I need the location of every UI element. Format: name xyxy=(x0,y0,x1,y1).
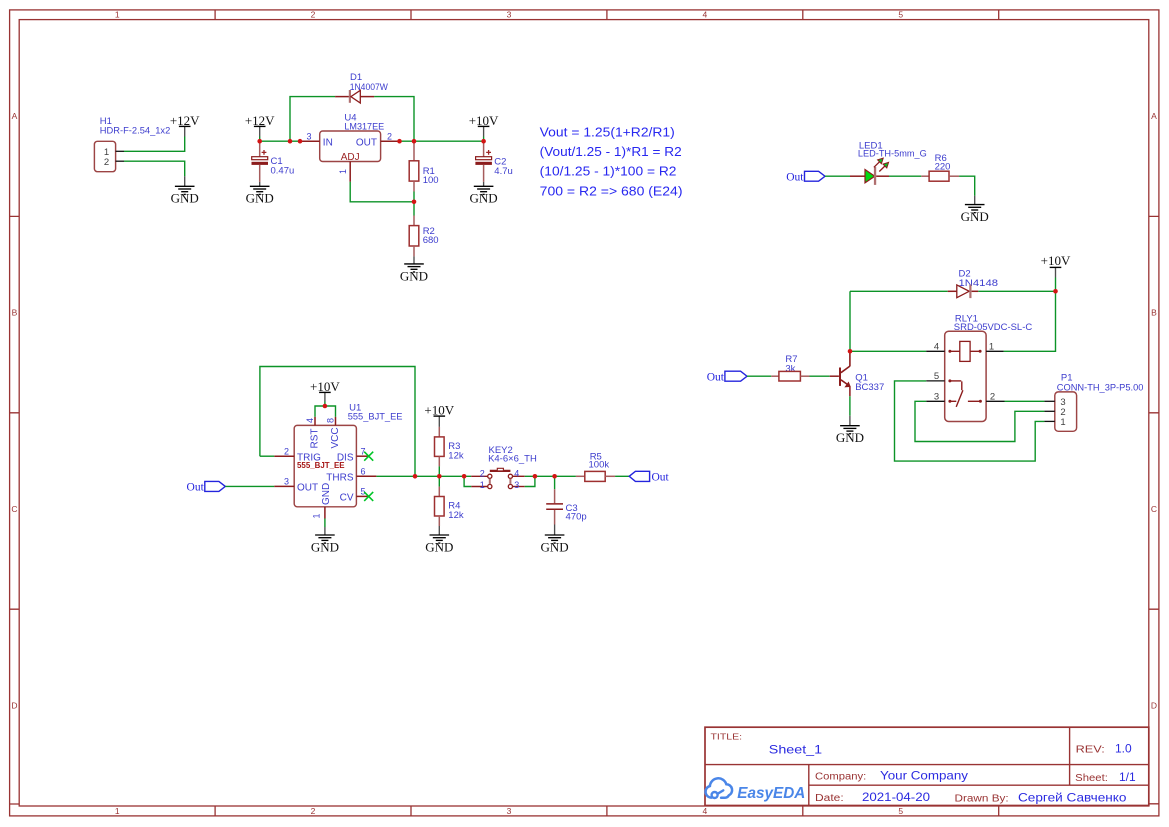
pin 3 xyxy=(926,400,945,402)
capacitor C3 470p xyxy=(546,476,586,524)
resistor R1 100 xyxy=(409,143,438,202)
timer U1 555_BJT_EE xyxy=(274,402,402,518)
wire OUT rail xyxy=(398,140,483,142)
svg-text:12k: 12k xyxy=(448,510,464,521)
resistor R2 680 xyxy=(409,202,438,257)
svg-text:+10V: +10V xyxy=(1041,253,1071,268)
pin 1 xyxy=(986,350,1004,352)
svg-text:RST: RST xyxy=(310,429,321,449)
svg-text:EasyEDA: EasyEDA xyxy=(737,785,805,802)
port Out (LED input) xyxy=(786,171,825,183)
svg-text:2: 2 xyxy=(284,447,289,457)
svg-text:3: 3 xyxy=(306,132,311,142)
pin 3 xyxy=(513,486,525,488)
wire D1 branch right xyxy=(374,97,414,142)
wire H1.2 to GND xyxy=(124,161,185,176)
svg-text:GND: GND xyxy=(836,430,864,445)
svg-text:2: 2 xyxy=(311,806,316,816)
pin 4 xyxy=(926,350,945,352)
capacitor C2 4.7u xyxy=(475,141,512,182)
ground (U1) xyxy=(311,527,339,554)
svg-text:1: 1 xyxy=(115,10,120,20)
pin 5 CV xyxy=(356,495,368,497)
wire LED1 to R6 xyxy=(889,175,921,177)
wire D2 anode xyxy=(850,290,948,292)
connector P1 CONN-TH_3P-P5.00 xyxy=(1044,373,1143,432)
wire relay pin 5 to P1.1 xyxy=(895,381,1045,461)
diode D1 1N4007W xyxy=(335,72,388,103)
svg-text:THRS: THRS xyxy=(326,473,354,484)
svg-text:GND: GND xyxy=(470,191,498,206)
diode D2 1N4148 xyxy=(948,269,998,299)
wire relay pin 3 to P1.2 xyxy=(915,401,1044,441)
pin 2 OUT xyxy=(381,140,399,142)
port Out (after R5) xyxy=(629,471,669,483)
svg-text:(Vout/1.25 - 1)*R1 = R2: (Vout/1.25 - 1)*R1 = R2 xyxy=(540,145,682,159)
port Out (relay drive) xyxy=(707,371,747,383)
svg-text:6: 6 xyxy=(360,467,365,477)
svg-text:B: B xyxy=(12,308,18,318)
svg-text:1: 1 xyxy=(989,342,994,353)
resistor R6 220 xyxy=(921,153,959,181)
wire Out to LED1 xyxy=(825,175,850,177)
key KEY2 K4-6x6_TH xyxy=(471,445,537,490)
svg-text:(10/1.25 - 1)*100 = R2: (10/1.25 - 1)*100 = R2 xyxy=(540,165,677,179)
wire emitter to GND xyxy=(849,396,851,416)
power flag +10V (555) xyxy=(310,379,340,406)
svg-text:C: C xyxy=(1151,504,1157,514)
svg-text:1/1: 1/1 xyxy=(1119,770,1136,784)
power flag +12V (H1) xyxy=(170,113,200,137)
svg-text:5: 5 xyxy=(898,806,903,816)
pin 4 xyxy=(513,475,525,477)
svg-text:100k: 100k xyxy=(589,460,610,471)
svg-text:OUT: OUT xyxy=(297,483,318,494)
ground (C3) xyxy=(541,525,569,555)
wire R5 to Out port xyxy=(615,475,629,477)
transistor Q1 BC337 xyxy=(830,353,885,397)
svg-text:2: 2 xyxy=(480,468,485,478)
connector H1 HDR-F-2.54_1x2 xyxy=(94,116,170,172)
power flag +10V (relay) xyxy=(1041,253,1071,291)
svg-text:DIS: DIS xyxy=(337,452,354,463)
resistor R5 100k xyxy=(576,451,615,481)
svg-text:2: 2 xyxy=(311,10,316,20)
power flag +10V (regulator output) xyxy=(469,113,499,141)
svg-text:OUT: OUT xyxy=(356,137,377,148)
svg-text:TRIG: TRIG xyxy=(297,452,321,463)
svg-text:Company:: Company: xyxy=(815,772,866,783)
svg-text:GND: GND xyxy=(246,191,274,206)
svg-text:REV:: REV: xyxy=(1076,745,1105,756)
svg-text:D: D xyxy=(1151,701,1157,711)
wire +12V rail to U4.IN xyxy=(260,140,300,142)
svg-text:Sheet:: Sheet: xyxy=(1075,773,1108,784)
wire relay pin 2 to P1.3 xyxy=(1005,400,1045,402)
svg-text:CV: CV xyxy=(340,493,354,504)
svg-text:Out: Out xyxy=(652,472,670,484)
pin 8 VCC xyxy=(335,417,337,426)
svg-text:GND: GND xyxy=(171,191,199,206)
pin 2 lead xyxy=(116,160,124,162)
button cap xyxy=(490,470,511,472)
svg-text:TITLE:: TITLE: xyxy=(711,732,743,742)
svg-text:Out: Out xyxy=(786,171,804,183)
wire TRIG-THRS loop xyxy=(260,367,415,477)
pin 4 RST xyxy=(314,417,316,426)
resistor R3 12k xyxy=(435,427,464,476)
svg-text:12k: 12k xyxy=(448,450,464,461)
svg-text:700 = R2 => 680 (E24): 700 = R2 => 680 (E24) xyxy=(540,184,683,198)
svg-text:680: 680 xyxy=(423,235,439,246)
svg-text:GND: GND xyxy=(400,268,428,283)
svg-text:+10V: +10V xyxy=(424,403,454,418)
junction dots (relay) xyxy=(848,289,1058,354)
svg-text:Your Company: Your Company xyxy=(880,769,968,783)
svg-text:1N4007W: 1N4007W xyxy=(350,82,388,93)
wire KEY2 to R5 xyxy=(525,475,576,477)
EasyEDA logo xyxy=(706,778,806,802)
pin 1 GND xyxy=(324,507,326,519)
svg-text:GND: GND xyxy=(321,483,332,505)
note text (design formulas) xyxy=(540,125,683,198)
wire D2 cathode to +10V xyxy=(978,290,1055,292)
svg-text:A: A xyxy=(1151,111,1157,121)
pin 1 xyxy=(471,486,487,488)
svg-text:LED-TH-5mm_G: LED-TH-5mm_G xyxy=(858,149,927,160)
svg-text:GND: GND xyxy=(961,209,989,224)
wire Out to R7 xyxy=(747,375,771,377)
svg-text:D: D xyxy=(11,701,17,711)
svg-text:0.47u: 0.47u xyxy=(271,165,295,176)
svg-text:GND: GND xyxy=(541,539,569,554)
relay coil xyxy=(960,341,970,361)
wire KEY2 pins 1-2 short xyxy=(464,476,471,486)
svg-text:HDR-F-2.54_1x2: HDR-F-2.54_1x2 xyxy=(100,126,171,137)
svg-text:5: 5 xyxy=(898,10,903,20)
no-connect X (CV) xyxy=(364,492,373,501)
svg-text:K4-6×6_TH: K4-6×6_TH xyxy=(488,454,537,465)
svg-text:1: 1 xyxy=(1060,417,1065,428)
junction dots (regulator rail) xyxy=(257,139,486,204)
resistor R7 3k xyxy=(771,354,809,381)
resistor R4 12k xyxy=(435,476,464,526)
svg-text:A: A xyxy=(12,111,18,121)
pin 2 xyxy=(471,475,487,477)
pin 1 lead xyxy=(116,150,124,152)
relay switch xyxy=(948,379,951,382)
P1 pin 3 lead xyxy=(1044,400,1054,402)
svg-text:1: 1 xyxy=(312,513,322,518)
wire D1 branch left xyxy=(290,97,335,142)
ground (R4) xyxy=(425,526,453,554)
svg-text:4: 4 xyxy=(934,342,939,353)
pin 6 THRS xyxy=(356,475,376,477)
svg-text:4: 4 xyxy=(703,806,708,816)
wire TRIG stub xyxy=(260,455,274,457)
svg-text:4: 4 xyxy=(514,469,519,479)
svg-text:GND: GND xyxy=(311,539,339,554)
svg-text:470p: 470p xyxy=(566,511,587,522)
wire collector branch up to D2 xyxy=(849,291,851,351)
ground (C1) xyxy=(246,182,274,206)
capacitor C1 0.47u xyxy=(252,141,295,182)
svg-text:2: 2 xyxy=(990,392,995,403)
wire THRS row xyxy=(376,475,471,477)
ground (R2) xyxy=(400,256,428,283)
port Out (555 output) xyxy=(187,481,226,493)
wire R7 to Q1 base xyxy=(810,375,830,377)
svg-text:3: 3 xyxy=(284,477,289,487)
svg-text:VCC: VCC xyxy=(330,427,341,448)
wire R6 to GND xyxy=(959,176,975,196)
svg-text:8: 8 xyxy=(325,418,335,423)
svg-text:B: B xyxy=(1151,308,1157,318)
ground (Q1) xyxy=(836,416,864,445)
wire ADJ feedback xyxy=(350,182,414,202)
pin 3 OUT xyxy=(274,485,294,487)
svg-text:Drawn By:: Drawn By: xyxy=(955,794,1009,805)
svg-text:2021-04-20: 2021-04-20 xyxy=(862,790,930,804)
pin 3 IN xyxy=(300,140,320,142)
ground (H1) xyxy=(171,176,199,205)
svg-text:+10V: +10V xyxy=(310,379,340,394)
wire 555 GND xyxy=(324,519,326,528)
svg-text:ADJ: ADJ xyxy=(341,152,360,163)
pin 2 xyxy=(986,400,1004,402)
svg-text:5: 5 xyxy=(934,371,939,382)
svg-text:2: 2 xyxy=(387,132,392,142)
svg-text:C: C xyxy=(11,504,17,514)
ground (C2) xyxy=(470,182,498,206)
svg-text:Out: Out xyxy=(707,371,725,383)
svg-text:IN: IN xyxy=(323,137,333,148)
P1 pin 2 lead xyxy=(1044,410,1054,412)
svg-text:1: 1 xyxy=(480,480,485,490)
svg-text:Out: Out xyxy=(187,482,205,494)
pin 7 DIS xyxy=(356,455,368,457)
svg-text:Vout = 1.25(1+R2/R1): Vout = 1.25(1+R2/R1) xyxy=(540,125,675,139)
power flag +12V (regulator input) xyxy=(245,113,275,141)
no-connect X (DIS) xyxy=(364,452,373,461)
svg-text:4.7u: 4.7u xyxy=(494,166,513,177)
ground (R6) xyxy=(961,196,989,224)
P1 pin 1 lead xyxy=(1044,420,1054,422)
svg-text:Сергей Савченко: Сергей Савченко xyxy=(1018,791,1127,805)
LED LED1 LED-TH-5mm_G xyxy=(850,141,927,185)
svg-text:3: 3 xyxy=(514,480,519,490)
pin 1 ADJ xyxy=(349,162,351,182)
svg-text:1: 1 xyxy=(338,169,348,174)
pin 2 TRIG xyxy=(274,455,294,457)
junction dots (555 area) xyxy=(323,404,557,479)
wire KEY2 pins 3-4 short xyxy=(525,476,535,486)
wire H1.1 to +12V xyxy=(124,137,185,152)
wire +10V to pins 4 and 8 xyxy=(315,406,336,417)
wire +10V down to relay pin 1 xyxy=(1004,291,1056,351)
svg-text:GND: GND xyxy=(425,539,453,554)
svg-text:2: 2 xyxy=(104,157,109,168)
svg-text:4: 4 xyxy=(703,10,708,20)
svg-text:BC337: BC337 xyxy=(855,382,884,393)
pin 5 xyxy=(926,380,945,382)
wire Out to 555 OUT pin xyxy=(225,485,274,487)
op-amp U4 LM317EE xyxy=(300,113,398,182)
svg-text:1N4148: 1N4148 xyxy=(959,278,999,289)
svg-text:3: 3 xyxy=(507,10,512,20)
wire collector to relay pin 4 xyxy=(850,350,926,352)
svg-text:4: 4 xyxy=(305,418,315,423)
relay RLY1 SRD-05VDC-SL-C xyxy=(926,313,1032,421)
svg-text:555_BJT_EE: 555_BJT_EE xyxy=(348,412,403,423)
svg-text:1: 1 xyxy=(115,806,120,816)
svg-text:3: 3 xyxy=(934,392,939,403)
title block xyxy=(705,727,1149,805)
svg-text:1.0: 1.0 xyxy=(1115,742,1132,756)
svg-text:100: 100 xyxy=(423,175,439,186)
svg-text:Sheet_1: Sheet_1 xyxy=(769,743,823,757)
svg-text:Date:: Date: xyxy=(815,793,844,804)
power flag +10V (divider) xyxy=(424,403,454,427)
svg-text:3: 3 xyxy=(507,806,512,816)
